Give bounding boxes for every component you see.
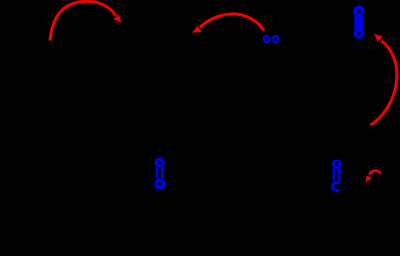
arrowhead of curved arrow 2: [192, 26, 202, 33]
curved arrow 3 (right side, long arc up to carbonyl): [371, 41, 397, 125]
curved arrow 2 (top-center, from lone pair to bond): [200, 14, 264, 31]
double bond bar of top-right carbonyl: [354, 14, 362, 31]
arrowhead of curved arrow 3: [374, 34, 383, 42]
arrowhead of curved arrow 1: [113, 14, 121, 23]
letter C of carbonyl carbon: [332, 182, 339, 190]
carbonyl C=O (bottom-center molecule, blue): [156, 159, 164, 188]
carbonyl O=C (bottom-right molecule, blue): [332, 161, 340, 191]
curved arrow 1 (top-left, from C-H to C=C): [50, 1, 116, 40]
lone pair oo (blue, on oxygen of center molecule): [264, 36, 279, 42]
arrowhead of curved arrow 4: [366, 175, 372, 182]
carbonyl O with lone pairs (top-right molecule, blue dumbbell): [355, 7, 362, 37]
curved arrow 4 (small, bottom-right): [369, 171, 380, 175]
